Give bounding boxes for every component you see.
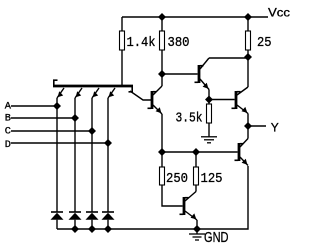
- wire Vcc top rail: [122, 16, 268, 18]
- svg-text:A: A: [5, 102, 11, 113]
- wire input D line: [11, 142, 108, 144]
- wire 1.4k top lead: [121, 17, 123, 31]
- wire 125 bottom lead: [195, 185, 197, 192]
- transistor Q1 collector lead: [130, 91, 151, 100]
- node C junction: [89, 128, 95, 134]
- wire bottom ground rail: [57, 166, 248, 229]
- wire 25 bottom lead: [247, 50, 249, 57]
- wire 125 top lead: [195, 152, 197, 167]
- wire input A vertical: [56, 98, 58, 212]
- wire input B line: [11, 117, 75, 119]
- wire input B vertical: [74, 98, 76, 212]
- wire 250 bottom lead to Q6 base: [162, 185, 183, 206]
- svg-text:GND: GND: [204, 230, 229, 246]
- node A junction: [54, 103, 60, 109]
- transistor Q1 multi-emitter base bar: [53, 85, 133, 88]
- svg-text:D: D: [5, 140, 11, 151]
- wire input C line: [11, 130, 92, 132]
- node diode B rail junction: [72, 226, 78, 232]
- transistor Q1 emitter 4: [108, 88, 115, 98]
- transistor Q1 emitter arrow 2: [76, 91, 82, 97]
- wire 3.5k top lead: [208, 100, 210, 105]
- svg-text:25: 25: [257, 35, 272, 51]
- transistor Q1 emitter arrow 3: [93, 91, 99, 97]
- node rail-25 junction: [245, 14, 251, 20]
- ground symbol GND: [189, 229, 205, 240]
- transistor Q3 darlington driver: [195, 58, 210, 100]
- svg-text:Vcc: Vcc: [268, 5, 290, 19]
- transistor Q5 output pulldown: [235, 126, 249, 166]
- wire input A line: [11, 105, 57, 107]
- wire 1.4k bottom lead: [121, 50, 123, 85]
- diode D1 input clamp: [51, 212, 64, 229]
- wire 25 top lead: [247, 17, 249, 31]
- diode D4 input clamp: [102, 212, 115, 229]
- svg-text:C: C: [5, 127, 11, 138]
- svg-text:3.5k: 3.5k: [176, 110, 203, 126]
- node 25 bottom junction: [245, 54, 251, 60]
- transistor Q2 phase splitter: [148, 74, 163, 152]
- node rail-380 junction: [159, 14, 165, 20]
- wire Q3 collector to 25: [209, 57, 248, 59]
- node diode D rail junction: [105, 226, 111, 232]
- transistor Q1 emitter arrow 1: [58, 91, 64, 97]
- resistor R1 1.4k body: [120, 31, 125, 50]
- diode D2 input clamp: [69, 212, 82, 229]
- transistor Q4 darlington output: [232, 87, 249, 126]
- node Q3 emitter junction: [206, 97, 212, 103]
- svg-text:125: 125: [201, 171, 223, 187]
- node Y output junction: [245, 123, 251, 129]
- svg-text:250: 250: [166, 171, 188, 187]
- wire input C vertical: [91, 98, 93, 212]
- wire 380 bottom lead: [161, 50, 163, 74]
- wire 250 top lead: [161, 152, 163, 167]
- transistor Q6 squaring: [180, 192, 198, 230]
- wire Q3E to Q4 base: [209, 99, 235, 101]
- node GND junction: [194, 226, 200, 232]
- node diode C rail junction: [89, 226, 95, 232]
- node B junction: [72, 115, 78, 121]
- svg-text:B: B: [5, 114, 11, 125]
- node Q2 collector junction: [159, 71, 165, 77]
- svg-text:380: 380: [168, 35, 190, 51]
- resistor R6 125 body: [194, 167, 199, 185]
- transistor Q1 emitter arrow 4: [109, 91, 115, 97]
- wire Y output: [248, 125, 266, 127]
- ground symbol mid: [201, 137, 217, 143]
- resistor R4 25 body: [246, 31, 251, 50]
- wire 380 top lead: [161, 17, 163, 31]
- resistor R3 3.5k body: [207, 104, 212, 123]
- node 250 top junction: [159, 149, 165, 155]
- resistor R2 380 body: [160, 31, 165, 50]
- svg-text:1.4k: 1.4k: [127, 35, 156, 51]
- node 125 top junction: [193, 149, 199, 155]
- wire squaring network rail: [162, 151, 238, 153]
- node D junction: [105, 140, 111, 146]
- transistor Q1 emitter 2: [75, 88, 82, 98]
- resistor R5 250 body: [160, 167, 165, 185]
- wire Q2C to Q3 base: [162, 73, 198, 75]
- transistor Q1 emitter 3: [92, 88, 99, 98]
- wire input D vertical: [107, 98, 109, 212]
- wire 25 junction vertical: [247, 57, 249, 87]
- wire 3.5k bottom lead: [208, 123, 210, 137]
- transistor Q1 emitter 1: [57, 88, 64, 98]
- diode D3 input clamp: [86, 212, 99, 229]
- svg-text:Y: Y: [271, 120, 279, 134]
